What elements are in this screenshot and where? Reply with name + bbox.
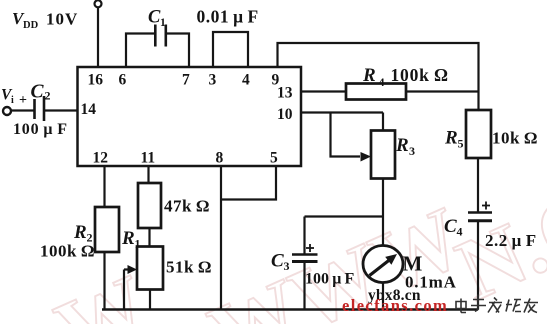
svg-text:11: 11 xyxy=(141,150,156,167)
resistor R4 xyxy=(346,84,406,100)
wire C1 to pin 7 xyxy=(167,34,189,68)
label Chinese brand glyphs xyxy=(456,295,538,313)
pin 3 label xyxy=(209,72,217,89)
label R3 xyxy=(395,135,415,158)
pin 14 label xyxy=(81,101,97,118)
svg-text:R: R xyxy=(73,222,87,243)
label R2 100k xyxy=(40,222,95,261)
resistor 47k xyxy=(138,183,161,228)
arrow into R1 wiper xyxy=(128,265,138,274)
wire R3 to meter xyxy=(382,179,384,247)
wire tee to C3 xyxy=(305,217,384,254)
input terminal Vi xyxy=(3,107,11,115)
svg-text:12: 12 xyxy=(93,150,109,167)
label C3 100uF xyxy=(271,251,354,288)
wire 47k to R1 xyxy=(148,228,150,247)
svg-text:5: 5 xyxy=(458,137,464,151)
svg-text:1: 1 xyxy=(160,17,166,29)
pin 6 label xyxy=(119,72,127,89)
svg-text:0.01 μ F: 0.01 μ F xyxy=(197,7,259,27)
svg-text:C: C xyxy=(31,82,45,103)
svg-text:2: 2 xyxy=(45,89,51,103)
wire meter to bottom rail xyxy=(382,283,384,310)
svg-text:10: 10 xyxy=(277,106,293,123)
svg-text:+: + xyxy=(19,93,27,108)
svg-text:3: 3 xyxy=(209,72,217,89)
pin 11 label xyxy=(141,150,156,167)
glyph zi xyxy=(471,295,486,312)
wire pin 9 to top right xyxy=(278,43,479,110)
wire pin 12 down xyxy=(103,166,105,207)
label 47k xyxy=(164,197,210,216)
capacitor C4 xyxy=(468,202,492,221)
wire C3 to bottom rail xyxy=(303,262,305,310)
pin 16 label xyxy=(88,72,104,89)
svg-text:13: 13 xyxy=(277,85,293,102)
pin 8 label xyxy=(216,150,224,167)
label 51k xyxy=(166,258,212,277)
meter M body xyxy=(363,246,403,283)
wire wiper branch to R3 xyxy=(331,113,361,157)
wire pin 10 right xyxy=(301,113,383,131)
glyph fa xyxy=(488,298,502,313)
svg-text:6: 6 xyxy=(119,72,127,89)
pin 12 label xyxy=(93,150,109,167)
resistor R5 xyxy=(466,110,491,158)
svg-text:100 μ F: 100 μ F xyxy=(305,271,354,288)
svg-text:100 μ F: 100 μ F xyxy=(13,121,68,138)
potentiometer R3 xyxy=(371,131,395,179)
svg-text:47k Ω: 47k Ω xyxy=(164,197,210,216)
svg-text:R: R xyxy=(362,65,376,86)
svg-text:5: 5 xyxy=(270,150,278,167)
svg-text:R: R xyxy=(444,128,458,149)
svg-text:7: 7 xyxy=(182,72,190,89)
label 100uF input xyxy=(13,121,68,138)
wire VDD to pin 16 xyxy=(97,7,99,67)
svg-text:100k Ω: 100k Ω xyxy=(391,65,449,85)
watermark diagonal letters xyxy=(43,143,547,324)
pin 9 label xyxy=(272,72,280,89)
svg-text:14: 14 xyxy=(81,101,97,118)
wire C2 to pin 14 xyxy=(45,109,78,111)
wire Vi to C2 xyxy=(11,109,34,111)
svg-text:R: R xyxy=(121,228,135,249)
label Vi + xyxy=(1,87,27,109)
wire pin 13 to R4 xyxy=(301,90,346,92)
wire R1 bottom to rail xyxy=(149,290,151,310)
svg-text:C: C xyxy=(271,251,284,272)
svg-text:16: 16 xyxy=(88,72,104,89)
svg-text:1: 1 xyxy=(135,237,141,251)
capacitor C3 xyxy=(292,244,318,262)
svg-text:10k Ω: 10k Ω xyxy=(492,129,538,148)
svg-text:elecfans.com: elecfans.com xyxy=(342,296,448,315)
bottom rail xyxy=(102,308,478,311)
pin 13 label xyxy=(277,85,293,102)
svg-text:8: 8 xyxy=(216,150,224,167)
wire pin 6 up xyxy=(126,34,154,68)
svg-text:DD: DD xyxy=(23,20,39,31)
wire R4 to right rail xyxy=(406,90,478,92)
wire pin 11 down xyxy=(147,166,149,183)
arrow into R3 wiper xyxy=(361,152,372,162)
svg-text:10V: 10V xyxy=(46,10,78,29)
glyph you xyxy=(524,299,538,313)
resistor R2 xyxy=(95,207,119,252)
wire pin 5 to pin 8 line xyxy=(221,166,276,200)
svg-text:i: i xyxy=(11,95,14,106)
wire C4 to bottom rail xyxy=(477,222,479,310)
label 0.01 uF xyxy=(197,7,259,27)
pin 4 label xyxy=(242,72,250,89)
glyph dian xyxy=(456,299,466,313)
label ybx8.cn xyxy=(368,287,421,304)
svg-text:C: C xyxy=(444,216,457,237)
meter needle xyxy=(370,260,391,276)
label R5 10k xyxy=(444,128,538,151)
svg-text:R: R xyxy=(395,135,409,156)
label VDD 10V xyxy=(12,9,78,31)
IC U1 body xyxy=(78,67,302,166)
pin 10 label xyxy=(277,106,293,123)
power terminal VDD xyxy=(95,0,102,7)
potentiometer R1 xyxy=(137,247,163,290)
svg-text:3: 3 xyxy=(409,144,415,158)
label R1 xyxy=(121,228,141,251)
svg-text:3: 3 xyxy=(284,259,290,273)
wire R5 to C4 xyxy=(477,158,479,212)
svg-text:100k Ω: 100k Ω xyxy=(40,242,95,261)
label elecfans.com xyxy=(342,296,448,315)
wire R1 wiper down to rail xyxy=(124,270,129,310)
svg-text:4: 4 xyxy=(457,225,463,239)
svg-text:4: 4 xyxy=(242,72,250,89)
pin 7 label xyxy=(182,72,190,89)
capacitor 0.01uF loop pins 3-4 xyxy=(213,32,248,67)
svg-text:2.2 μ F: 2.2 μ F xyxy=(485,231,537,250)
label R4 100k xyxy=(362,65,449,89)
label C4 2.2uF xyxy=(444,216,537,250)
pin 5 label xyxy=(270,150,278,167)
wire R2 to bottom rail xyxy=(103,252,105,310)
svg-text:4: 4 xyxy=(379,75,385,89)
label C1 xyxy=(148,8,166,30)
glyph shao xyxy=(506,300,521,312)
svg-text:51k Ω: 51k Ω xyxy=(166,258,212,277)
capacitor C2 xyxy=(35,96,45,121)
label M 0.1mA xyxy=(403,252,457,292)
label C2 xyxy=(31,82,51,103)
capacitor C1 xyxy=(155,25,166,47)
wire pin 8 down to rail xyxy=(220,166,222,310)
